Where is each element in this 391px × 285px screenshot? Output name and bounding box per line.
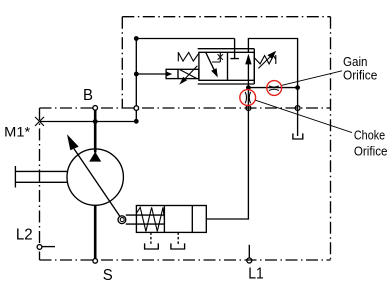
valve divider [227,52,229,80]
servo piston pin outer [118,216,126,224]
svg-text:B: B [83,86,93,104]
svg-text:L1: L1 [248,265,264,283]
junction dot choke [246,85,251,90]
tank symbol drain left [145,243,159,249]
pump flow triangle [89,152,101,162]
pointer gain [282,71,342,86]
pump shaft [15,166,67,188]
svg-text:Gain: Gain [343,55,368,69]
svg-text:Orifice: Orifice [354,145,388,159]
svg-text:Orifice: Orifice [343,69,377,83]
junction dot B [93,119,98,124]
enclosure border top [122,16,330,18]
svg-text:M1*: M1* [4,125,30,141]
valve left spring [178,52,199,61]
wire to pilot actuator [137,73,167,75]
wire L2 stub [42,246,55,248]
valve envelope [199,52,254,80]
pilot actuator box [166,69,199,78]
junction dot right [295,85,300,90]
wire S thick [94,205,97,259]
valve left position arrow [206,53,214,70]
wire servo rail [206,88,248,219]
variable displacement arrowhead [67,134,79,150]
right spring arrow [258,57,269,68]
servo cylinder spring [137,207,165,231]
drain dashed left [150,232,152,244]
tank symbol drain right [171,243,185,249]
wire right drain [297,88,299,136]
port L1 [247,258,252,263]
pilot connection T [230,39,239,59]
port drain boundary [295,106,300,111]
svg-text:L2: L2 [16,226,33,244]
gauge port star M1 [35,117,44,126]
enclosure border mid horizontal [40,107,331,109]
enclosure border left [39,108,41,260]
choke orifice red circle [240,90,256,106]
drain dashed right [177,232,179,244]
port S [93,259,98,264]
valve left position stub [212,52,220,62]
port B [93,106,98,111]
gain orifice arcs [269,86,279,91]
pilot actuator arrow [185,66,197,79]
wire left pilot rail vertical [135,39,137,122]
junction dot pilot corner [134,36,139,41]
junction dot rail bottom [134,119,139,124]
servo piston pin inner [120,218,124,222]
enclosure border bottom [40,259,331,261]
variable displacement arrow line [74,149,120,217]
pilot arrowhead [166,72,172,77]
servo cylinder body [136,206,206,233]
pilot actuator diagonal [180,70,196,78]
choke orifice arcs [245,92,250,103]
wire top right rail [248,39,297,88]
wire L1 stub [248,245,250,258]
pilot actuator divider [177,69,179,78]
wire B thick [94,110,97,153]
wire pilot top horizontal [136,38,234,40]
svg-text:S: S [103,266,113,284]
gain orifice red circle [267,81,282,96]
valve right adjustable spring [254,55,275,64]
servo cylinder piston [164,206,192,233]
valve left position tiny cross [218,54,223,60]
wire B horizontal [40,121,137,123]
valve right position up arrow [245,54,251,65]
enclosure border valve-block left [121,17,123,108]
port valve block [134,106,139,111]
tank symbol right [293,133,303,139]
enclosure border right [330,17,332,260]
port choke boundary [246,106,251,111]
pointer choke [255,100,352,132]
port L2 [37,245,42,250]
clevis lines [126,215,165,224]
wire gain line [248,87,297,89]
svg-text:Choke: Choke [354,128,385,142]
pump circle [67,149,123,205]
junction dot actuator branch [134,72,139,77]
wire valve outlet [247,62,249,88]
valve parallel lines [198,49,255,84]
